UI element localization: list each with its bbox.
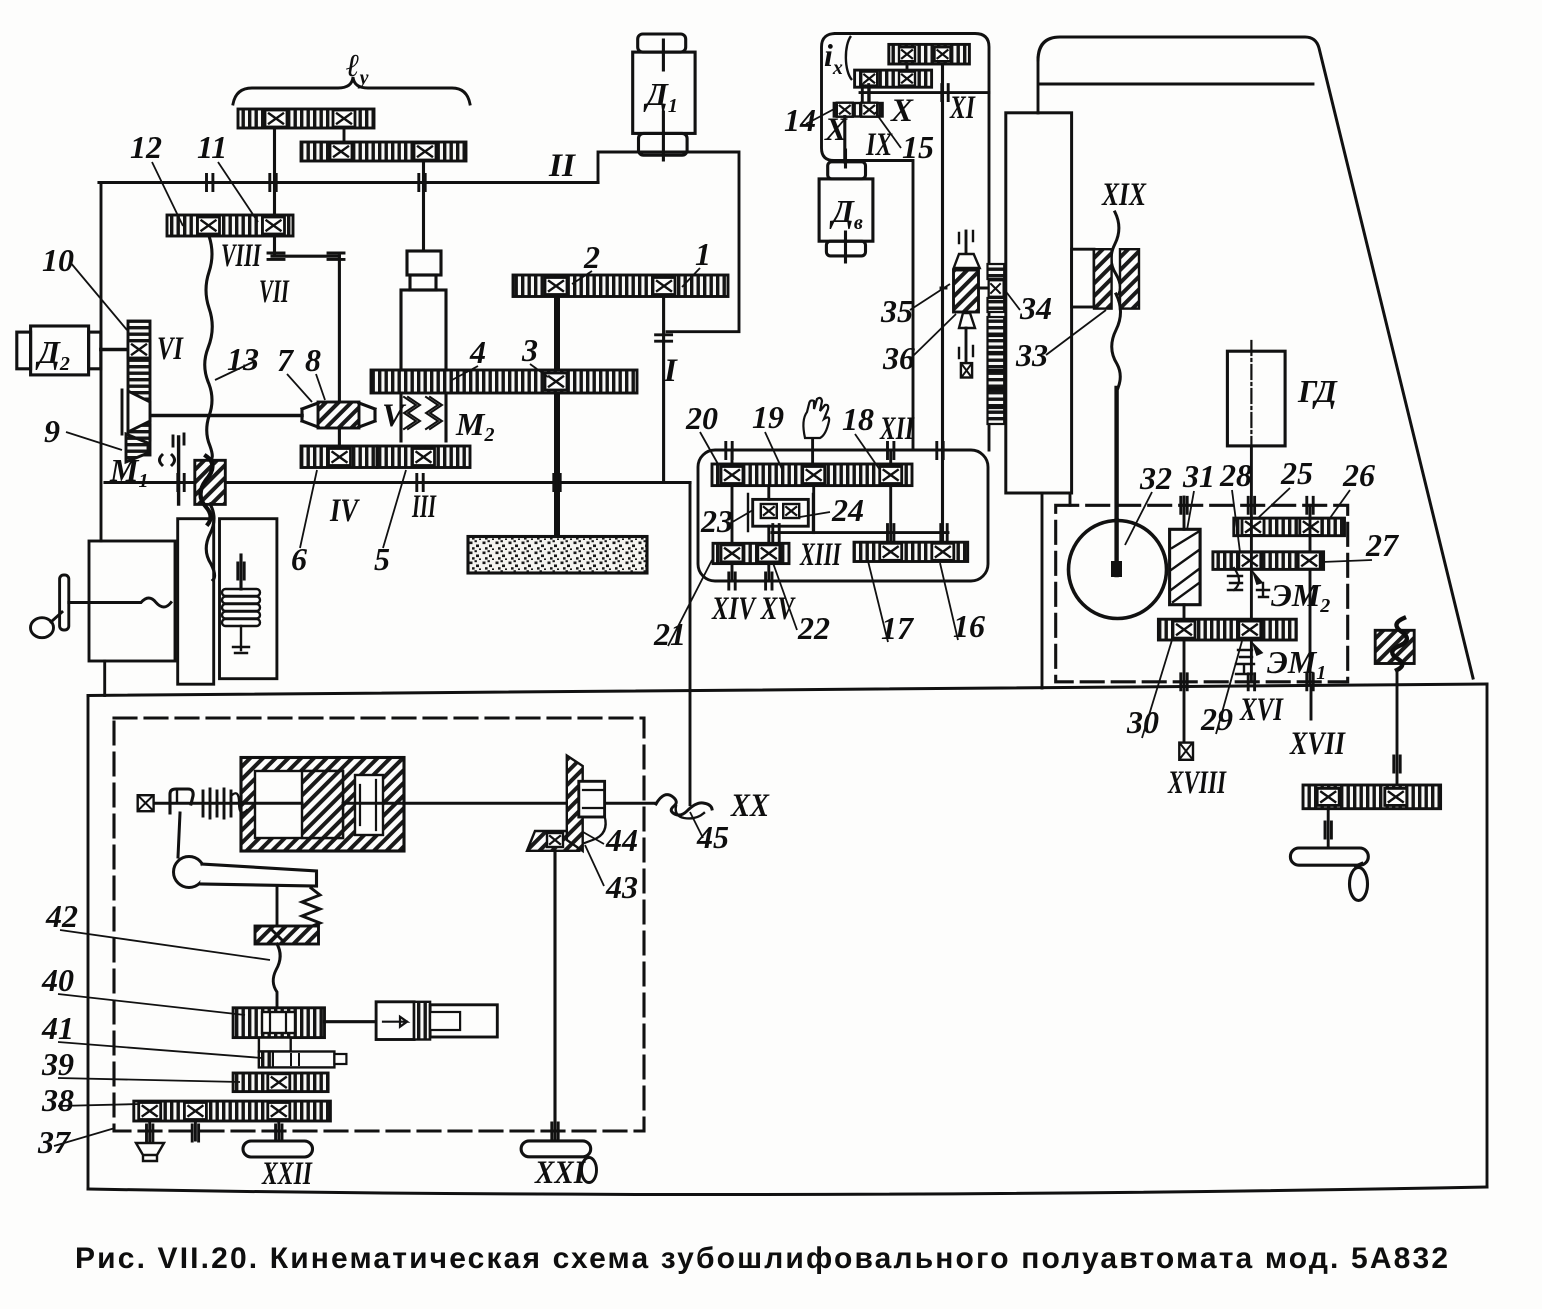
svg-text:22: 22 xyxy=(797,610,830,646)
crank handle xyxy=(60,575,69,630)
svg-text:I: I xyxy=(663,353,678,389)
gear 14/15 bar xyxy=(834,103,883,117)
svg-text:20: 20 xyxy=(685,400,718,436)
svg-text:44: 44 xyxy=(605,822,638,858)
wavy shaft 13 xyxy=(205,236,213,460)
gear 12/11 bar xyxy=(167,215,293,236)
svg-text:33: 33 xyxy=(1015,337,1048,373)
drop line to rod XX xyxy=(689,483,692,805)
svg-text:XIV XV: XIV XV xyxy=(711,591,796,627)
screw nut on column xyxy=(1072,249,1094,307)
EM2 clutch xyxy=(1234,568,1239,590)
svg-text:36: 36 xyxy=(882,340,915,376)
svg-text:32: 32 xyxy=(1139,460,1172,496)
bellows coupling xyxy=(239,555,242,589)
box B1 xyxy=(178,519,214,685)
bell crank xyxy=(178,813,180,857)
svg-text:X: X xyxy=(824,112,848,148)
svg-text:XVIII: XVIII xyxy=(1167,765,1227,801)
gear bar 28/27 xyxy=(1213,552,1324,570)
svg-text:42: 42 xyxy=(45,898,78,934)
long shaft XI xyxy=(941,64,944,542)
svg-text:ЭМ2: ЭМ2 xyxy=(1271,577,1330,617)
box A xyxy=(89,541,175,661)
svg-text:1: 1 xyxy=(695,236,711,272)
latch hook xyxy=(170,789,193,813)
shaft X line xyxy=(860,91,989,94)
gear bar 25/26 xyxy=(1234,518,1345,536)
svg-text:24: 24 xyxy=(831,492,864,528)
piston rod XX xyxy=(154,802,302,805)
screw to wheel xyxy=(1114,388,1118,570)
svg-text:VIII: VIII xyxy=(221,238,262,274)
svg-text:XX: XX xyxy=(730,788,770,824)
svg-text:V: V xyxy=(382,398,407,434)
worm 31 xyxy=(1170,529,1201,604)
brace l_y xyxy=(233,77,470,104)
gear bar 21/22 xyxy=(713,543,789,563)
svg-text:14: 14 xyxy=(784,102,816,138)
grinding wheel mount (stippled) xyxy=(468,537,647,574)
svg-text:M2: M2 xyxy=(455,406,494,446)
shaft XXI xyxy=(553,851,556,1141)
bearing shaft I corner xyxy=(656,335,672,341)
svg-text:II: II xyxy=(548,148,576,184)
svg-text:34: 34 xyxy=(1019,290,1052,326)
svg-text:Дв: Дв xyxy=(829,193,863,234)
svg-text:39: 39 xyxy=(41,1046,74,1082)
shaft of l_y lower gear to spindle xyxy=(422,161,425,251)
funnel xyxy=(136,1143,164,1161)
motor D2 (left) xyxy=(17,332,31,369)
i_x gear bar middle xyxy=(855,70,932,87)
gear cluster on column left xyxy=(988,264,1005,424)
svg-text:28: 28 xyxy=(1219,457,1252,493)
svg-text:6: 6 xyxy=(291,541,307,577)
shaft VII horizontal xyxy=(272,255,339,258)
svg-text:XVII: XVII xyxy=(1289,726,1346,762)
machine body outline top-right (bold) xyxy=(1038,37,1473,678)
feed gearbox rounded box xyxy=(698,450,988,581)
svg-text:Д1: Д1 xyxy=(643,76,678,117)
svg-text:VII: VII xyxy=(259,274,290,310)
svg-text:17: 17 xyxy=(881,610,915,646)
shaft 30/XVIII xyxy=(1183,605,1186,743)
box B2 xyxy=(220,519,277,679)
shaft IV vertical xyxy=(338,256,341,446)
M2 coupling zigzag xyxy=(404,397,420,429)
machine mid boundary line xyxy=(88,684,1487,696)
svg-text:ix: ix xyxy=(824,37,843,79)
shaft below with handle xyxy=(1327,809,1330,848)
bearings on frame line xyxy=(178,475,184,491)
shaft down from lever xyxy=(276,886,279,926)
gear bar bottom right xyxy=(1303,785,1441,809)
svg-text:XII: XII xyxy=(879,411,915,447)
shaft XVI xyxy=(1250,446,1253,682)
gear 40 xyxy=(233,1008,324,1038)
motor GD (grinding head) xyxy=(1227,351,1285,446)
overrunning clutch 41 xyxy=(259,1052,335,1068)
rod left X box xyxy=(138,795,154,811)
shafts below xyxy=(150,1121,279,1143)
bearings on shaft II line xyxy=(207,175,213,191)
pawl bracket 43 xyxy=(527,831,579,851)
XVIII end bearing box xyxy=(1179,743,1193,760)
worm V with arrows xyxy=(318,402,359,428)
left wall upper section xyxy=(100,183,103,542)
gear 5 xyxy=(377,446,470,468)
hand lever xyxy=(811,438,814,464)
hatched bracket with spring wire xyxy=(1375,630,1414,663)
svg-text:12: 12 xyxy=(130,129,162,165)
bearings on box bottom edge xyxy=(729,573,735,589)
svg-text:23: 23 xyxy=(700,503,733,539)
svg-text:40: 40 xyxy=(41,962,74,998)
shaft through 19 down xyxy=(812,486,815,533)
gear bar 30/29 xyxy=(1158,619,1296,640)
bearings shaft VII xyxy=(268,253,284,259)
gear 6 xyxy=(301,446,377,468)
svg-text:XXII: XXII xyxy=(261,1156,313,1192)
rack block 42 xyxy=(255,926,319,944)
svg-text:19: 19 xyxy=(752,399,784,435)
svg-text:8: 8 xyxy=(305,342,321,378)
svg-text:XXI: XXI xyxy=(534,1155,586,1191)
svg-text:ГД: ГД xyxy=(1297,373,1338,409)
spring pack on rod xyxy=(203,789,231,818)
svg-text:M1: M1 xyxy=(109,452,148,492)
svg-text:26: 26 xyxy=(1342,457,1375,493)
svg-text:18: 18 xyxy=(842,401,874,437)
svg-text:45: 45 xyxy=(696,819,729,855)
i_x gear bar top xyxy=(889,44,970,64)
svg-text:15: 15 xyxy=(902,129,934,165)
svg-text:35: 35 xyxy=(880,293,913,329)
svg-text:Д2: Д2 xyxy=(35,334,70,375)
svg-text:IV: IV xyxy=(329,493,360,529)
rod squiggle 45 xyxy=(656,795,712,815)
svg-text:XI: XI xyxy=(949,90,976,126)
grinding wheel circle xyxy=(1069,521,1167,619)
svg-text:5: 5 xyxy=(374,541,390,577)
svg-text:4: 4 xyxy=(469,334,486,370)
return spring xyxy=(302,888,320,936)
svg-text:XIII: XIII xyxy=(799,537,841,573)
i_x upper rounded box xyxy=(822,34,990,451)
housing box under motor D1 xyxy=(598,152,739,332)
gear 2/1 bar xyxy=(513,275,728,297)
gear bar 20/19/18 xyxy=(712,464,912,486)
shaft IX to motor Dv xyxy=(843,117,846,163)
bearings dashes top/bottom xyxy=(1181,497,1187,513)
dashed box grinding feed (right) xyxy=(1056,505,1348,682)
svg-text:7: 7 xyxy=(277,342,295,378)
wavy shaft through clutch down xyxy=(206,504,214,580)
shaft II horizontal line xyxy=(99,181,598,184)
shaft I vertical xyxy=(662,297,665,483)
XIX screw wavy xyxy=(1111,212,1120,294)
motor Dv xyxy=(828,162,866,179)
svg-text:38: 38 xyxy=(41,1082,74,1118)
svg-text:9: 9 xyxy=(44,413,60,449)
shaft 17 vertical xyxy=(889,486,892,543)
capsule XXII xyxy=(243,1141,313,1157)
hydraulic cylinder xyxy=(241,758,404,852)
svg-text:ℓу: ℓу xyxy=(346,47,369,89)
svg-text:3: 3 xyxy=(521,332,538,368)
gear bar 17/16 xyxy=(854,542,968,561)
spindle quill xyxy=(407,251,441,275)
mesh stubs xyxy=(869,64,907,103)
svg-text:XVI: XVI xyxy=(1239,692,1284,728)
block 23/24 cone drum xyxy=(753,499,809,526)
drive line from bevel to worm xyxy=(150,414,302,418)
svg-text:III: III xyxy=(411,489,436,525)
svg-text:XIX: XIX xyxy=(1101,177,1147,213)
bottom section right edge xyxy=(1486,684,1489,1187)
svg-text:2: 2 xyxy=(583,239,600,275)
shaft XII vertical stubs xyxy=(732,450,891,464)
gear 38/37 row xyxy=(134,1101,331,1121)
svg-text:11: 11 xyxy=(197,129,227,165)
bevel set 35/36 xyxy=(965,231,968,254)
svg-text:25: 25 xyxy=(1280,455,1313,491)
bottom section left edge xyxy=(87,696,90,1190)
bracket 44 plate xyxy=(567,756,583,852)
svg-text:X: X xyxy=(890,93,914,129)
gear 4/3 bar xyxy=(371,370,637,393)
svg-text:ЭМ1: ЭМ1 xyxy=(1267,644,1326,684)
svg-text:Рис. VII.20. Кинематическая сх: Рис. VII.20. Кинематическая схема зубошл… xyxy=(75,1242,1448,1275)
mesh stub xyxy=(343,128,346,142)
gear 39 xyxy=(233,1073,328,1092)
gear pair upper (l_y change gears) xyxy=(238,109,374,128)
small drum xyxy=(259,1038,291,1052)
gear pair lower (l_y) xyxy=(301,142,466,161)
svg-text:IX: IX xyxy=(865,127,892,163)
bearings on XIII line xyxy=(773,525,779,541)
shaft VIII vertical xyxy=(273,128,276,256)
shaft 31 upper xyxy=(1183,497,1186,529)
shaft 26/27/XVII xyxy=(1310,505,1311,719)
shaft XIII line xyxy=(772,531,948,534)
dashed box table drive (bottom-left) xyxy=(114,718,644,1131)
svg-text:VI: VI xyxy=(157,331,184,367)
left edge of head column xyxy=(1037,58,1040,113)
housing frame line III/IV xyxy=(105,481,690,484)
bevel gear 9 / M1 xyxy=(128,391,150,432)
feed motor small xyxy=(325,1020,377,1023)
svg-text:41: 41 xyxy=(41,1010,74,1046)
gear VI vertical xyxy=(128,321,150,455)
bottom section bottom edge xyxy=(88,1187,1487,1195)
shaft drop from i_x xyxy=(913,449,988,451)
clutch hatched block xyxy=(195,460,226,504)
motor D1 xyxy=(638,34,686,52)
svg-text:10: 10 xyxy=(42,242,74,278)
wheel spindle shaft xyxy=(554,297,560,538)
svg-text:31: 31 xyxy=(1182,458,1215,494)
svg-text:43: 43 xyxy=(605,869,638,905)
shaft 20 down to 21 xyxy=(731,486,734,581)
bearings on box top edge xyxy=(726,443,732,459)
clutch fork xyxy=(177,437,180,504)
svg-text:27: 27 xyxy=(1365,527,1400,563)
EM1 clutch xyxy=(1251,641,1263,656)
inner top line xyxy=(1040,83,1313,86)
wall under box A xyxy=(103,661,106,696)
head slide column xyxy=(1006,113,1072,493)
